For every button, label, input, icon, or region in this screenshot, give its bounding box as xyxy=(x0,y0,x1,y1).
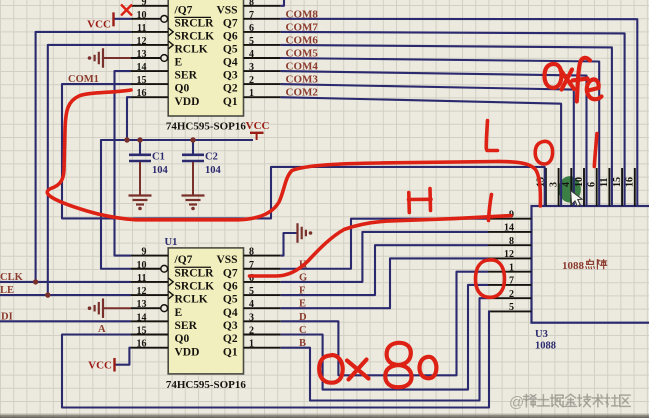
svg-text:/Q7: /Q7 xyxy=(174,254,193,266)
svg-text:SER: SER xyxy=(175,320,198,332)
svg-text:4: 4 xyxy=(561,182,572,187)
svg-text:VSS: VSS xyxy=(216,254,237,266)
svg-text:Q6: Q6 xyxy=(223,281,238,293)
svg-text:SRCLK: SRCLK xyxy=(175,281,215,293)
svg-text:11: 11 xyxy=(137,23,146,34)
svg-text:13: 13 xyxy=(137,49,147,60)
svg-text:COM6: COM6 xyxy=(286,34,319,46)
svg-text:/Q7: /Q7 xyxy=(174,4,193,16)
svg-text:8: 8 xyxy=(509,236,514,247)
svg-text:10: 10 xyxy=(137,260,147,271)
svg-text:Q3: Q3 xyxy=(223,70,238,82)
svg-text:10: 10 xyxy=(137,10,147,21)
svg-text:COM5: COM5 xyxy=(286,48,319,60)
svg-text:U3: U3 xyxy=(535,329,548,340)
svg-text:12: 12 xyxy=(137,36,147,47)
svg-text:LE: LE xyxy=(0,285,14,296)
svg-text:9: 9 xyxy=(142,247,147,258)
svg-text:E: E xyxy=(175,57,183,69)
svg-text:104: 104 xyxy=(152,165,169,176)
svg-text:VCC: VCC xyxy=(246,120,270,132)
svg-text:1088: 1088 xyxy=(562,260,585,272)
svg-text:12: 12 xyxy=(137,286,147,297)
svg-text:16: 16 xyxy=(137,88,147,99)
svg-text:1: 1 xyxy=(249,88,254,99)
svg-text:16: 16 xyxy=(137,339,147,350)
svg-text:Q2: Q2 xyxy=(223,83,238,95)
svg-text:4: 4 xyxy=(249,49,254,60)
svg-text:3: 3 xyxy=(548,182,559,187)
svg-text:F: F xyxy=(299,286,305,297)
svg-text:14: 14 xyxy=(504,223,514,234)
svg-text:SRCLR: SRCLR xyxy=(175,267,215,279)
svg-text:COM8: COM8 xyxy=(286,8,319,20)
svg-text:A: A xyxy=(98,324,106,335)
svg-text:Q5: Q5 xyxy=(223,294,238,306)
svg-text:5: 5 xyxy=(249,286,254,297)
svg-text:14: 14 xyxy=(137,62,147,73)
svg-text:15: 15 xyxy=(137,75,147,86)
svg-text:RCLK: RCLK xyxy=(175,294,208,306)
svg-text:104: 104 xyxy=(205,165,222,176)
svg-text:4: 4 xyxy=(249,299,254,310)
svg-text:SRCLK: SRCLK xyxy=(175,31,215,43)
svg-text:2: 2 xyxy=(249,326,254,337)
svg-text:U1: U1 xyxy=(165,237,178,248)
svg-text:SER: SER xyxy=(175,70,198,82)
svg-text:7: 7 xyxy=(249,10,254,21)
svg-text:10: 10 xyxy=(574,177,585,187)
svg-text:3: 3 xyxy=(249,312,254,323)
svg-text:8: 8 xyxy=(249,0,254,8)
svg-text:5: 5 xyxy=(509,302,514,313)
svg-text:COM1: COM1 xyxy=(68,74,99,85)
svg-text:6: 6 xyxy=(587,182,598,187)
svg-text:11: 11 xyxy=(137,273,146,284)
svg-text:Q5: Q5 xyxy=(223,44,238,56)
svg-text:VDD: VDD xyxy=(175,346,200,358)
svg-text:DI: DI xyxy=(1,311,13,322)
svg-text:C2: C2 xyxy=(205,152,218,163)
svg-text:8: 8 xyxy=(249,247,254,258)
svg-text:Q2: Q2 xyxy=(223,333,238,345)
svg-text:74HC595-SOP16: 74HC595-SOP16 xyxy=(166,121,247,133)
svg-text:7: 7 xyxy=(509,276,514,287)
svg-text:Q0: Q0 xyxy=(175,333,190,345)
svg-text:15: 15 xyxy=(137,326,147,337)
svg-text:@: @ xyxy=(509,394,524,411)
svg-text:2: 2 xyxy=(249,75,254,86)
svg-text:VCC: VCC xyxy=(88,360,112,372)
svg-text:16: 16 xyxy=(625,177,636,187)
svg-text:Q4: Q4 xyxy=(223,307,238,319)
svg-text:COM7: COM7 xyxy=(286,21,319,33)
svg-text:Q6: Q6 xyxy=(223,31,238,43)
svg-text:74HC595-SOP16: 74HC595-SOP16 xyxy=(166,379,247,391)
svg-text:E: E xyxy=(299,299,306,310)
svg-text:SRCLR: SRCLR xyxy=(175,17,215,29)
svg-text:VSS: VSS xyxy=(216,4,237,16)
svg-text:E: E xyxy=(175,307,183,319)
svg-text:Q7: Q7 xyxy=(223,267,238,279)
svg-text:15: 15 xyxy=(612,177,623,187)
svg-text:G: G xyxy=(299,272,307,283)
svg-text:CLK: CLK xyxy=(0,272,24,283)
svg-text:13: 13 xyxy=(137,299,147,310)
svg-text:C: C xyxy=(299,325,307,336)
svg-text:11: 11 xyxy=(599,178,610,187)
svg-text:1: 1 xyxy=(249,339,254,350)
svg-text:Q3: Q3 xyxy=(223,320,238,332)
svg-text:1: 1 xyxy=(509,262,514,273)
svg-text:1088: 1088 xyxy=(535,341,556,352)
svg-text:9: 9 xyxy=(142,0,147,8)
svg-text:Q7: Q7 xyxy=(223,17,238,29)
svg-text:D: D xyxy=(299,312,307,323)
svg-text:Q1: Q1 xyxy=(223,96,238,108)
svg-text:3: 3 xyxy=(249,62,254,73)
svg-text:2: 2 xyxy=(509,289,514,300)
svg-text:VCC: VCC xyxy=(87,18,111,30)
svg-text:Q1: Q1 xyxy=(223,346,238,358)
svg-text:5: 5 xyxy=(249,36,254,47)
svg-text:6: 6 xyxy=(249,23,254,34)
svg-text:COM2: COM2 xyxy=(286,87,319,99)
svg-text:COM3: COM3 xyxy=(286,74,319,86)
svg-text:12: 12 xyxy=(504,249,514,260)
svg-text:RCLK: RCLK xyxy=(175,44,208,56)
svg-text:VDD: VDD xyxy=(175,96,200,108)
svg-text:Q4: Q4 xyxy=(223,57,238,69)
svg-text:C1: C1 xyxy=(152,152,165,163)
svg-text:7: 7 xyxy=(249,260,254,271)
svg-text:COM4: COM4 xyxy=(286,61,319,73)
svg-text:Q0: Q0 xyxy=(175,83,190,95)
svg-text:B: B xyxy=(299,338,306,349)
svg-text:14: 14 xyxy=(137,312,147,323)
